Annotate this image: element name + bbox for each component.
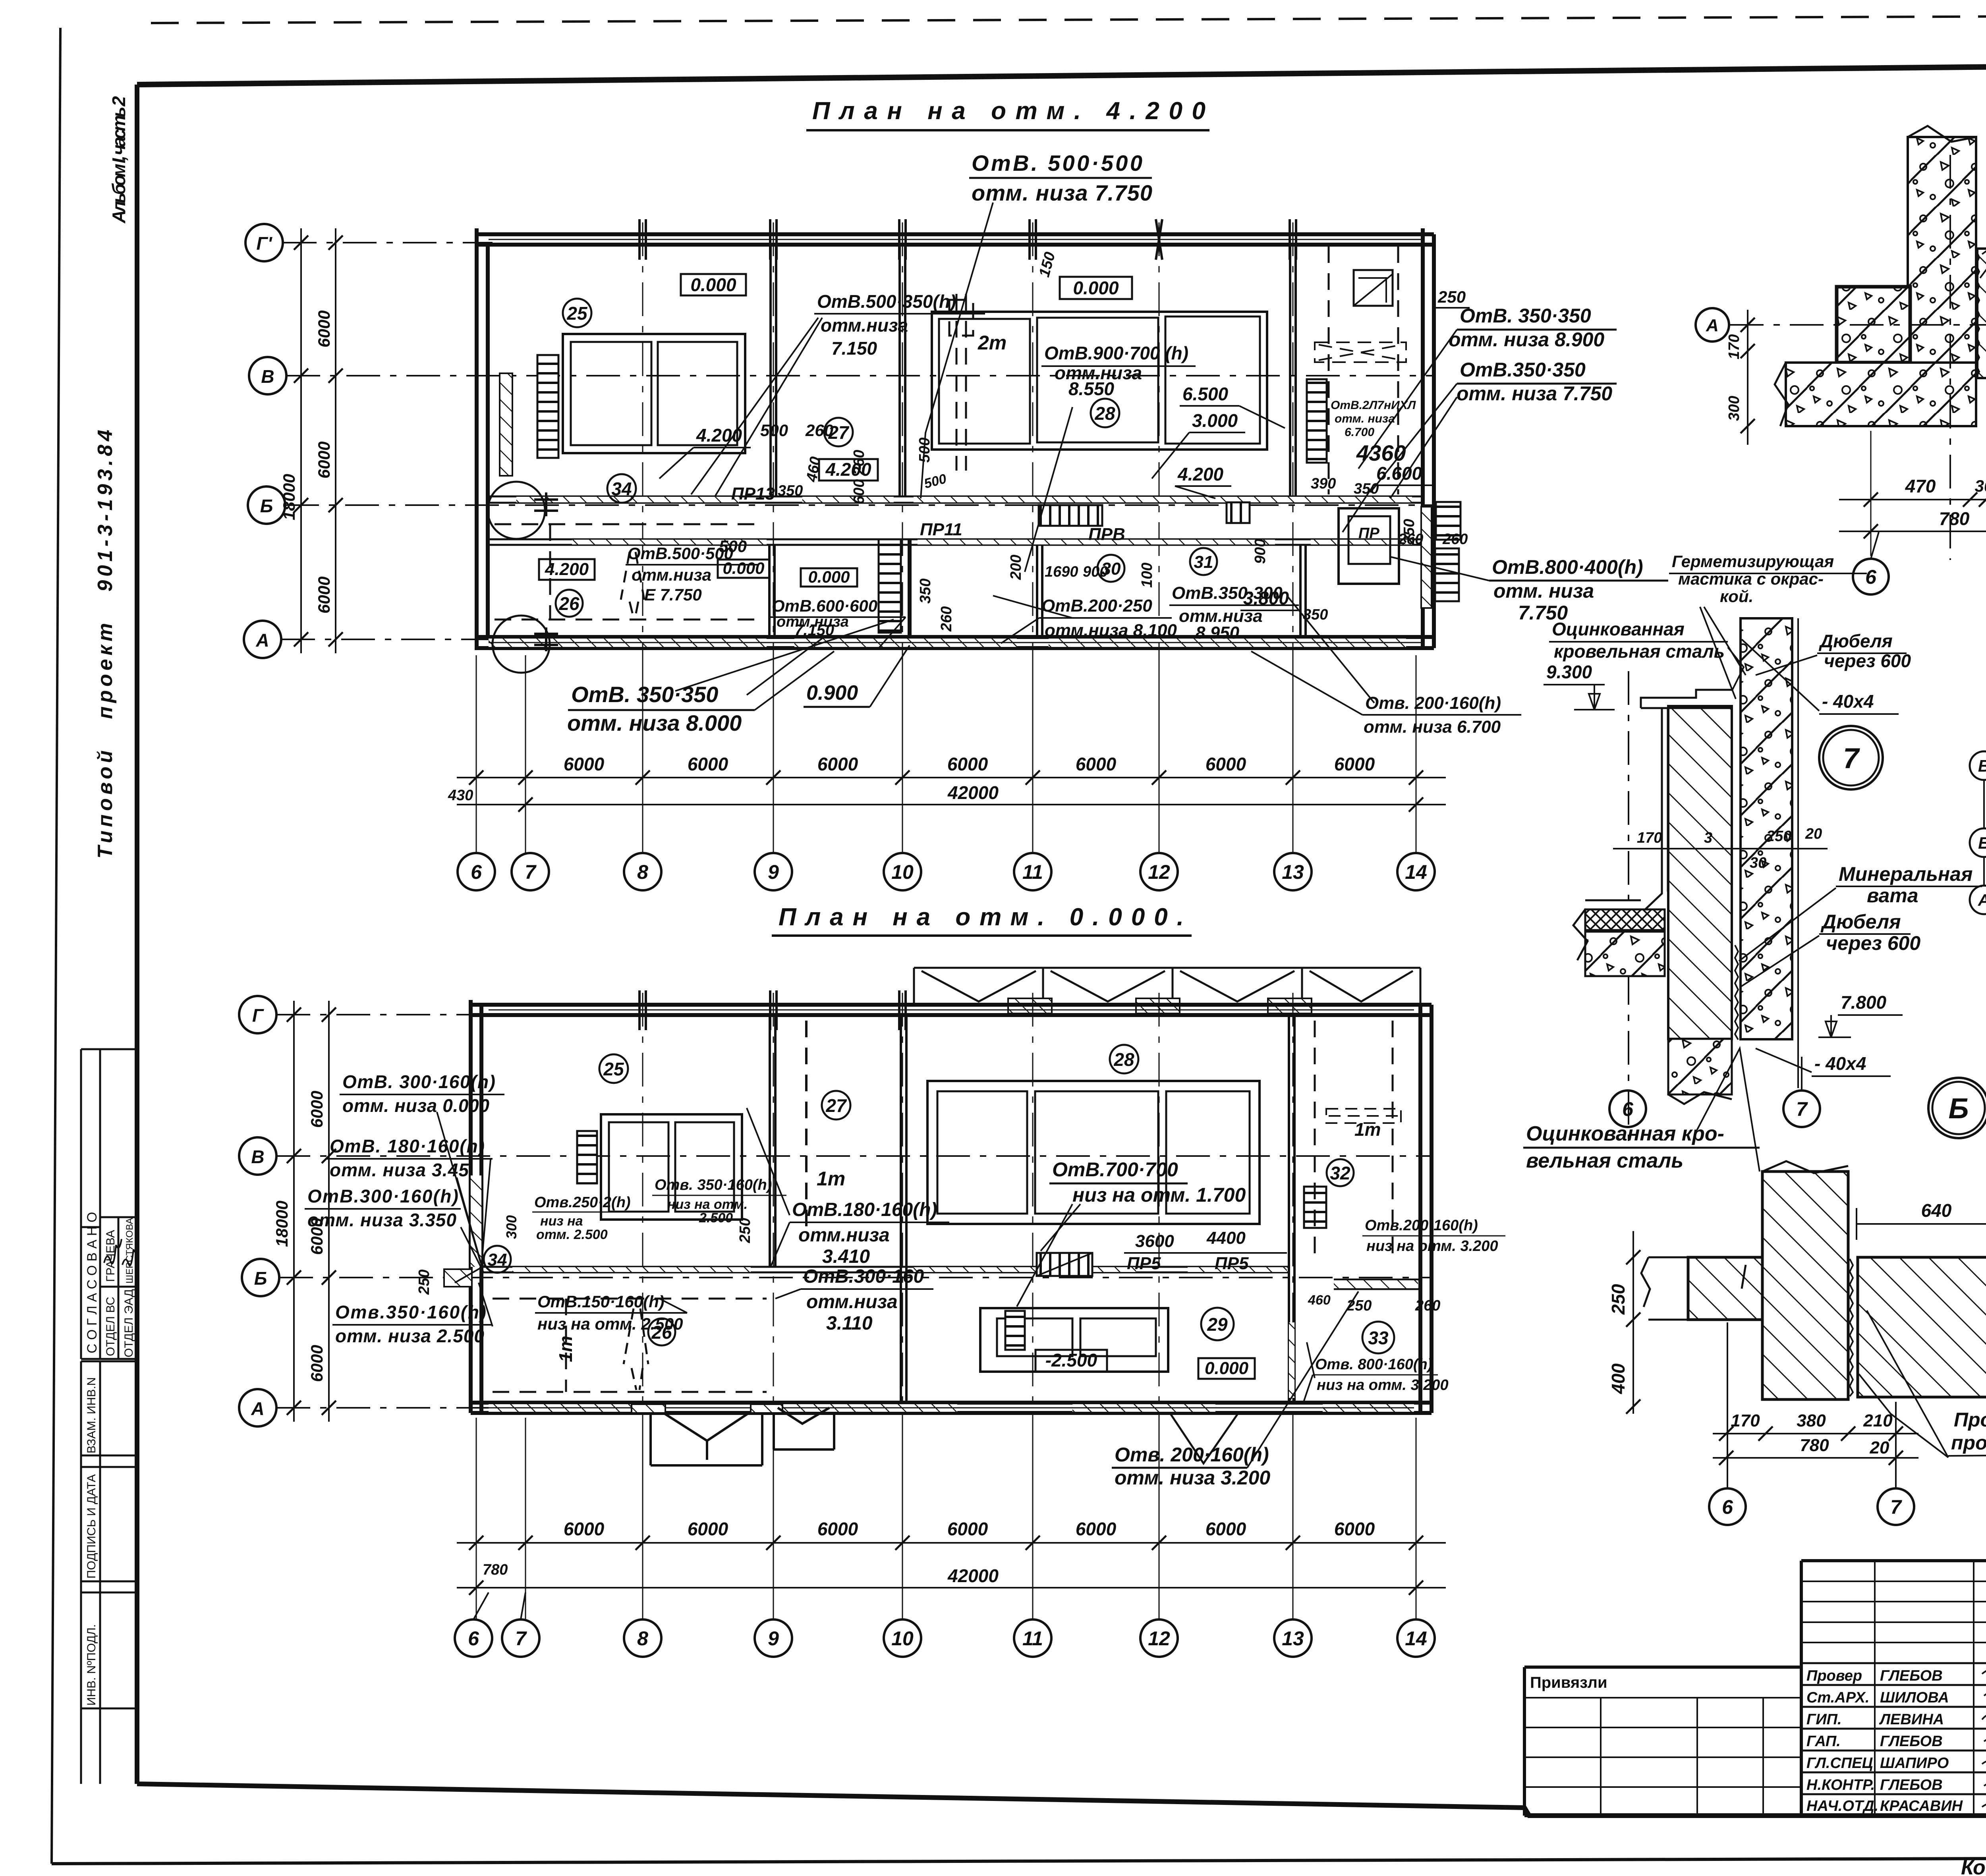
lower grid circle 7 bbox=[502, 1619, 539, 1657]
lower grid circle 12 bbox=[1140, 1619, 1178, 1657]
room 25 window tank bbox=[563, 334, 745, 453]
small stair left of band bbox=[1005, 1311, 1025, 1350]
upper dim line row2 bbox=[457, 804, 1446, 805]
axis circle A left bbox=[1696, 308, 1729, 342]
tank room 28 outer bbox=[932, 312, 1267, 450]
svg-text:ОтВ.300·160: ОтВ.300·160 bbox=[803, 1266, 924, 1287]
svg-text:4360: 4360 bbox=[1356, 440, 1406, 465]
svg-text:- 40х4: - 40х4 bbox=[1814, 1053, 1866, 1074]
upper plan right wall bbox=[1421, 228, 1425, 648]
svg-text:отм.низа: отм.низа bbox=[798, 1225, 890, 1246]
detail B grid circle 7 bbox=[1878, 1488, 1914, 1525]
right section dashed lines bbox=[1329, 246, 1398, 494]
interior wall col10 upper band bbox=[898, 245, 901, 497]
dashed hole room26 lower bbox=[624, 1309, 648, 1390]
svg-text:ОтВ. 180·160(h): ОтВ. 180·160(h) bbox=[330, 1136, 485, 1156]
svg-text:30: 30 bbox=[1750, 855, 1766, 871]
svg-text:33: 33 bbox=[1368, 1328, 1389, 1348]
svg-text:1m: 1m bbox=[1354, 1119, 1381, 1140]
svg-text:6000: 6000 bbox=[688, 754, 728, 774]
exterior stair right top bbox=[1436, 502, 1461, 540]
svg-text:26: 26 bbox=[558, 593, 580, 614]
column centerlines lower plan bbox=[643, 993, 1293, 1426]
upper grid circle 10 bbox=[884, 853, 921, 890]
svg-text:25: 25 bbox=[603, 1059, 624, 1079]
B-axis wall right section lower plan bbox=[1334, 1279, 1420, 1281]
detail 7 wall dims bbox=[1613, 848, 1828, 849]
interior wall col9 upper band bbox=[769, 245, 772, 497]
svg-text:1m: 1m bbox=[555, 1336, 576, 1362]
svg-text:Оцинкованная: Оцинкованная bbox=[1552, 619, 1685, 639]
svg-text:В: В bbox=[1978, 757, 1986, 775]
detail 7 panel lower part bbox=[1668, 1039, 1732, 1094]
svg-text:10: 10 bbox=[891, 861, 914, 883]
svg-text:6000: 6000 bbox=[315, 311, 333, 347]
svg-text:8.550: 8.550 bbox=[1068, 378, 1115, 399]
svg-text:900: 900 bbox=[1252, 539, 1269, 564]
detail 7 grid circle 7 below bbox=[1783, 1090, 1820, 1127]
stair mid corridor bbox=[1039, 505, 1102, 526]
svg-text:ПР5: ПР5 bbox=[1127, 1254, 1161, 1273]
svg-text:260: 260 bbox=[1415, 1297, 1440, 1314]
detail 7 outer face line bbox=[1797, 618, 1799, 1088]
lower grid circle 6 bbox=[455, 1619, 492, 1657]
detail B vertical bar bbox=[1762, 1172, 1848, 1399]
detail 4 left vert dim bbox=[1747, 310, 1748, 445]
axis G' dash-dot line bbox=[283, 242, 493, 243]
detail 4 left slab bbox=[1786, 363, 1976, 426]
svg-text:30: 30 bbox=[1975, 477, 1986, 495]
right ladder room 32 bbox=[1304, 1187, 1326, 1228]
svg-text:отм. низа 0.000: отм. низа 0.000 bbox=[342, 1095, 489, 1116]
svg-text:Г: Г bbox=[252, 1005, 264, 1026]
svg-text:ОТДЕЛ ВС: ОТДЕЛ ВС bbox=[104, 1297, 117, 1356]
upper grid circle 7 bbox=[512, 853, 549, 890]
svg-text:9: 9 bbox=[768, 861, 779, 883]
interior wall col10 lower plan bbox=[900, 1015, 902, 1403]
svg-text:Провер: Провер bbox=[1806, 1668, 1862, 1684]
svg-text:Отв. 200·160(h): Отв. 200·160(h) bbox=[1115, 1444, 1269, 1466]
svg-text:Привязли: Привязли bbox=[1530, 1674, 1607, 1691]
svg-text:6: 6 bbox=[471, 861, 482, 883]
axis diagram circle A bbox=[1970, 886, 1986, 914]
svg-text:20: 20 bbox=[1805, 826, 1822, 842]
svg-text:ОтВ. 500·500: ОтВ. 500·500 bbox=[972, 151, 1142, 176]
axis V dash-dot line bbox=[286, 375, 1434, 376]
detail B label circle bbox=[1928, 1078, 1986, 1138]
svg-text:28: 28 bbox=[1113, 1049, 1134, 1070]
svg-text:4.200: 4.200 bbox=[1177, 464, 1224, 484]
svg-text:ОтВ.700·700: ОтВ.700·700 bbox=[1052, 1158, 1178, 1181]
svg-text:отм.низа 8.100: отм.низа 8.100 bbox=[1045, 621, 1177, 640]
svg-text:ПОДПИСЬ И ДАТА: ПОДПИСЬ И ДАТА bbox=[85, 1474, 98, 1579]
svg-text:Б: Б bbox=[260, 496, 273, 516]
box 0.000 lower bbox=[1198, 1358, 1255, 1379]
lower grid circle 10 bbox=[884, 1619, 921, 1657]
svg-text:14: 14 bbox=[1405, 1627, 1427, 1650]
upper grid circle 13 bbox=[1274, 853, 1312, 890]
dashed opening 2m bbox=[949, 294, 973, 471]
svg-text:6000: 6000 bbox=[1334, 1519, 1375, 1539]
svg-text:6: 6 bbox=[1622, 1098, 1634, 1120]
detail circle at axis B left wall bbox=[488, 482, 545, 539]
left wall pier hatched bbox=[500, 373, 512, 476]
svg-text:6: 6 bbox=[1865, 566, 1877, 588]
svg-text:1m: 1m bbox=[817, 1168, 845, 1190]
svg-text:низ на отм. 3.200: низ на отм. 3.200 bbox=[1366, 1238, 1498, 1255]
axis A circle lower bbox=[239, 1389, 276, 1426]
svg-text:250: 250 bbox=[1766, 828, 1791, 845]
svg-text:4.200: 4.200 bbox=[545, 560, 589, 579]
svg-text:6000: 6000 bbox=[1076, 754, 1117, 774]
tank room 28 pane2 bbox=[1037, 318, 1158, 442]
main frame top bbox=[137, 61, 1986, 85]
svg-text:18000: 18000 bbox=[272, 1200, 291, 1247]
svg-text:-2.500: -2.500 bbox=[1045, 1350, 1097, 1370]
svg-text:Отв.200·160(h): Отв.200·160(h) bbox=[1365, 1217, 1478, 1234]
svg-text:6.700: 6.700 bbox=[1345, 426, 1374, 439]
svg-text:34: 34 bbox=[611, 479, 632, 499]
detail B grid circle 6 bbox=[1709, 1488, 1746, 1525]
svg-text:ОтВ.180·160(h): ОтВ.180·160(h) bbox=[792, 1199, 937, 1220]
34 circle lower bbox=[484, 1246, 511, 1273]
svg-text:4400: 4400 bbox=[1206, 1228, 1246, 1248]
level box 4.200 room26 bbox=[539, 559, 595, 580]
svg-text:Проконопатить: Проконопатить bbox=[1954, 1409, 1986, 1431]
detail B right bar bbox=[1858, 1257, 1986, 1397]
svg-text:7: 7 bbox=[1890, 1496, 1902, 1518]
svg-text:Б: Б bbox=[254, 1268, 267, 1289]
lower plan title underline bbox=[772, 934, 1192, 937]
svg-text:отм.низа: отм.низа bbox=[821, 315, 908, 336]
svg-text:26: 26 bbox=[651, 1322, 672, 1343]
svg-text:6.500: 6.500 bbox=[1182, 384, 1229, 404]
svg-text:ОтВ.600·600: ОтВ.600·600 bbox=[772, 596, 877, 615]
detail 4 axis A dashdot bbox=[1730, 324, 1986, 326]
staff labels bbox=[1806, 1668, 1963, 1814]
svg-text:27: 27 bbox=[825, 1095, 847, 1116]
svg-text:34: 34 bbox=[488, 1250, 507, 1270]
svg-text:ОтВ.2Л7нИХЛ: ОтВ.2Л7нИХЛ bbox=[1331, 399, 1416, 412]
interior walls lower band bbox=[768, 545, 771, 637]
roof hatch pads on wall bbox=[1008, 998, 1052, 1013]
box -2.500 bbox=[1036, 1350, 1107, 1372]
tank room 28 pane1 bbox=[939, 319, 1030, 444]
room circle 28 lower bbox=[1110, 1045, 1138, 1073]
leaders from otv180/300 bbox=[747, 1108, 801, 1299]
axis diagram connectors bbox=[1983, 780, 1985, 828]
dashed beam right section bbox=[1315, 342, 1406, 362]
svg-text:11: 11 bbox=[1022, 861, 1043, 883]
detail 7 label circle bbox=[1819, 726, 1883, 789]
left dim line 6000s bbox=[335, 228, 336, 653]
room circle 28 bbox=[1091, 399, 1119, 427]
column tick marks axis B left bbox=[534, 492, 558, 516]
interior wall col13 upper band bbox=[1289, 245, 1291, 497]
svg-text:350: 350 bbox=[778, 483, 803, 499]
svg-text:7.800: 7.800 bbox=[1841, 992, 1887, 1013]
svg-text:Отв. 200·160(h): Отв. 200·160(h) bbox=[1365, 693, 1501, 713]
svg-text:0.000: 0.000 bbox=[690, 274, 736, 295]
svg-text:ОтВ.150·160(h): ОтВ.150·160(h) bbox=[537, 1292, 665, 1311]
svg-text:ГЛ.СПЕЦ: ГЛ.СПЕЦ bbox=[1806, 1755, 1873, 1772]
privyazki table bbox=[1524, 1698, 1801, 1816]
svg-text:3.800: 3.800 bbox=[1243, 588, 1289, 608]
upper dim line row1 bbox=[457, 777, 1446, 778]
axis diagram circle V bbox=[1970, 751, 1986, 780]
svg-text:ОтВ.800·400(h): ОтВ.800·400(h) bbox=[1492, 556, 1643, 578]
svg-text:ГЛЕБОВ: ГЛЕБОВ bbox=[1880, 1777, 1943, 1793]
small rooms bottom right bbox=[1339, 508, 1399, 584]
detail B 640 dim bbox=[1857, 1223, 1986, 1225]
detail 4 left concrete square bbox=[1837, 287, 1910, 363]
svg-text:6000: 6000 bbox=[315, 577, 333, 614]
svg-text:С О Г Л А С О В А Н О: С О Г Л А С О В А Н О bbox=[85, 1212, 100, 1353]
svg-text:6000: 6000 bbox=[307, 1345, 326, 1382]
detail 4 seam bbox=[1976, 250, 1979, 377]
svg-text:18000: 18000 bbox=[280, 474, 298, 520]
svg-text:32: 32 bbox=[1330, 1163, 1350, 1183]
svg-text:6: 6 bbox=[468, 1627, 479, 1650]
svg-text:ЛЕВИНА: ЛЕВИНА bbox=[1879, 1711, 1944, 1728]
svg-text:Отв. 350·160(h): Отв. 350·160(h) bbox=[655, 1177, 772, 1193]
svg-text:НАЧ.ОТД.: НАЧ.ОТД. bbox=[1806, 1798, 1878, 1814]
sawtooth roof line bbox=[914, 967, 1420, 969]
room 27 dashed line bbox=[805, 1021, 808, 1235]
svg-text:3.110: 3.110 bbox=[826, 1313, 873, 1334]
extension lines lower dims bbox=[476, 1418, 1416, 1619]
svg-text:500: 500 bbox=[760, 421, 788, 440]
detail B axis verticals bbox=[1727, 1322, 1728, 1488]
detail 7 grid circle 6 below bbox=[1609, 1090, 1646, 1127]
svg-text:отм. низа 7.750: отм. низа 7.750 bbox=[1457, 382, 1612, 405]
svg-text:ОтВ.300·160(h): ОтВ.300·160(h) bbox=[307, 1186, 458, 1206]
stairs top of machine band bbox=[1037, 1253, 1092, 1276]
svg-text:3: 3 bbox=[1704, 830, 1712, 846]
detail 7 insulation strip bbox=[1585, 909, 1665, 930]
svg-text:7.150: 7.150 bbox=[831, 338, 877, 359]
svg-text:Е 7.750: Е 7.750 bbox=[644, 585, 702, 604]
column marks top wall lower bbox=[639, 990, 906, 1030]
svg-text:8: 8 bbox=[637, 861, 648, 883]
svg-text:Отв. 800·160(h): Отв. 800·160(h) bbox=[1315, 1356, 1432, 1373]
svg-text:6000: 6000 bbox=[688, 1519, 728, 1539]
room circle 25 bbox=[563, 299, 591, 327]
level box 0.000 room25 bbox=[681, 274, 746, 295]
svg-text:6: 6 bbox=[1722, 1496, 1733, 1518]
svg-text:900: 900 bbox=[1083, 564, 1108, 580]
left wall stub at B bbox=[444, 1269, 472, 1287]
leaders right annotations bbox=[1358, 330, 1457, 498]
svg-text:отм. низа: отм. низа bbox=[1493, 580, 1594, 602]
svg-text:6.600: 6.600 bbox=[1376, 463, 1422, 484]
svg-text:отм. низа 3.200: отм. низа 3.200 bbox=[1115, 1467, 1270, 1489]
svg-text:7: 7 bbox=[1796, 1098, 1808, 1120]
svg-text:500: 500 bbox=[916, 438, 933, 463]
leaders from 600x600 bbox=[675, 617, 906, 691]
26 circle lower bbox=[648, 1318, 675, 1345]
corridor upper wall bbox=[488, 496, 1423, 498]
upper grid circle 11 bbox=[1014, 853, 1051, 890]
svg-text:260: 260 bbox=[938, 606, 955, 632]
detail 4 axis line col6 bbox=[1949, 155, 1951, 560]
svg-text:ПР11: ПР11 bbox=[920, 520, 962, 539]
axis A circle bbox=[244, 621, 281, 658]
svg-text:ОтВ.200·250: ОтВ.200·250 bbox=[1041, 596, 1152, 616]
svg-text:350: 350 bbox=[1354, 481, 1379, 497]
room circle 26 bbox=[556, 590, 583, 617]
svg-text:отм. низа 8.000: отм. низа 8.000 bbox=[567, 710, 742, 735]
svg-text:Дюбеля: Дюбеля bbox=[1820, 911, 1901, 933]
signatures scribbles bbox=[1982, 1669, 1986, 1809]
svg-text:4.200: 4.200 bbox=[696, 425, 742, 446]
svg-text:0.000: 0.000 bbox=[808, 567, 850, 586]
lower plan left wall bbox=[469, 1000, 473, 1413]
hole dashed marks room26 bbox=[621, 552, 644, 618]
svg-text:низ на отм. 3.200: низ на отм. 3.200 bbox=[1317, 1377, 1449, 1393]
svg-text:250: 250 bbox=[1437, 288, 1466, 306]
svg-text:Отв.250·2(h): Отв.250·2(h) bbox=[534, 1194, 631, 1211]
detail 4 extension lines bbox=[1870, 431, 1872, 556]
svg-text:7: 7 bbox=[1843, 743, 1860, 774]
svg-text:отм. низа 3.45: отм. низа 3.45 bbox=[330, 1160, 469, 1180]
svg-text:А: А bbox=[1978, 891, 1986, 909]
lower dim line row2 bbox=[457, 1587, 1446, 1588]
svg-text:2m: 2m bbox=[978, 332, 1007, 354]
svg-text:Б: Б bbox=[1949, 1093, 1969, 1125]
svg-text:300: 300 bbox=[1726, 396, 1743, 421]
svg-text:ВЗАМ. ИНВ.N: ВЗАМ. ИНВ.N bbox=[85, 1377, 98, 1453]
right section dashed lines lower bbox=[1315, 1021, 1393, 1263]
svg-text:ИНВ. NºПОДЛ.: ИНВ. NºПОДЛ. bbox=[85, 1624, 98, 1706]
svg-text:Герметизирующая: Герметизирующая bbox=[1672, 552, 1834, 571]
detail 7 cap flashing bbox=[1641, 690, 1732, 708]
column tick marks axis A left bbox=[534, 627, 558, 651]
axis A dash-dot line bbox=[281, 639, 493, 640]
svg-text:29: 29 bbox=[1207, 1314, 1228, 1335]
room 25 window lower bbox=[601, 1114, 742, 1220]
svg-text:260: 260 bbox=[1398, 531, 1423, 548]
upper plan top wall bbox=[475, 232, 1434, 236]
svg-text:7: 7 bbox=[525, 861, 537, 883]
axis G' circle bbox=[245, 224, 283, 261]
33 circle bbox=[1362, 1322, 1394, 1353]
svg-text:11: 11 bbox=[1022, 1627, 1043, 1650]
svg-text:380: 380 bbox=[1797, 1411, 1826, 1430]
main frame left bbox=[135, 85, 139, 1784]
svg-text:250: 250 bbox=[1608, 1284, 1629, 1315]
stairs room25 lower bbox=[577, 1131, 597, 1183]
svg-text:400: 400 bbox=[1608, 1363, 1629, 1394]
svg-text:низ на: низ на bbox=[540, 1214, 583, 1229]
svg-text:42000: 42000 bbox=[947, 1565, 999, 1586]
lower dim line row1 bbox=[457, 1542, 1446, 1544]
svg-text:низ на отм. 1.700: низ на отм. 1.700 bbox=[1072, 1184, 1246, 1206]
svg-text:вельная сталь: вельная сталь bbox=[1526, 1149, 1683, 1172]
svg-text:А: А bbox=[255, 630, 269, 650]
column marks on top wall bbox=[639, 219, 1296, 260]
corridor wall lower plan bbox=[481, 1266, 1289, 1268]
svg-text:6000: 6000 bbox=[315, 442, 333, 479]
svg-text:170: 170 bbox=[1731, 1411, 1760, 1430]
svg-text:ОтВ.900·700 (h): ОтВ.900·700 (h) bbox=[1044, 343, 1188, 363]
upper plan left wall bbox=[475, 228, 479, 648]
lower grid circle 13 bbox=[1274, 1619, 1312, 1657]
svg-text:ОтВ. 300·160(h): ОтВ. 300·160(h) bbox=[342, 1071, 495, 1092]
lower grid circle 8 bbox=[624, 1619, 661, 1657]
corridor lower wall bbox=[488, 538, 1423, 540]
svg-text:7: 7 bbox=[515, 1627, 527, 1650]
svg-text:отм.низа: отм.низа bbox=[632, 566, 711, 584]
left wall hatched pier lower bbox=[471, 1175, 481, 1267]
room 26 dashed area bbox=[495, 524, 755, 620]
svg-text:10: 10 bbox=[891, 1627, 914, 1650]
svg-text:390: 390 bbox=[1311, 475, 1336, 492]
svg-text:3.000: 3.000 bbox=[1192, 410, 1238, 431]
svg-text:через 600: через 600 bbox=[1826, 932, 1920, 954]
svg-text:170: 170 bbox=[1637, 830, 1662, 846]
svg-text:14: 14 bbox=[1405, 861, 1427, 883]
extension lines to bottom dims bbox=[476, 655, 1416, 853]
revision table rows bbox=[1801, 1561, 1986, 1816]
column centerlines vertical dash-dot bbox=[643, 222, 1293, 659]
detail B dowel seam bbox=[1850, 1259, 1853, 1396]
svg-text:Минеральная: Минеральная bbox=[1839, 863, 1972, 885]
svg-text:6000: 6000 bbox=[564, 1519, 605, 1539]
svg-text:КРАСАВИН: КРАСАВИН bbox=[1880, 1798, 1963, 1814]
svg-text:200: 200 bbox=[1008, 555, 1024, 580]
hatched pier right edge bbox=[1421, 507, 1432, 608]
svg-text:ШИЛОВА: ШИЛОВА bbox=[1880, 1689, 1949, 1706]
axis dash-dot lines lower bbox=[276, 1014, 489, 1015]
lower grid circle 9 bbox=[755, 1619, 792, 1657]
svg-text:260: 260 bbox=[805, 421, 833, 440]
detail 7 outer concrete layer bbox=[1741, 618, 1792, 1039]
svg-text:13: 13 bbox=[1282, 1627, 1304, 1650]
svg-text:20: 20 bbox=[1870, 1438, 1889, 1457]
svg-text:6000: 6000 bbox=[817, 754, 858, 774]
lower grid circle 14 bbox=[1397, 1619, 1435, 1657]
svg-text:8.950: 8.950 bbox=[1196, 623, 1240, 643]
svg-text:6000: 6000 bbox=[1206, 754, 1246, 774]
axis G circle lower bbox=[239, 996, 276, 1033]
svg-text:- 40х4: - 40х4 bbox=[1822, 691, 1874, 712]
door canopy V room29 bbox=[1171, 1415, 1237, 1463]
upper grid circle 8 bbox=[624, 853, 661, 890]
approvals table box bbox=[81, 1049, 137, 1359]
svg-text:260: 260 bbox=[1442, 531, 1468, 548]
detail 7 parapet inner face bbox=[1637, 708, 1668, 917]
svg-text:780: 780 bbox=[1939, 508, 1970, 529]
svg-text:ПР5: ПР5 bbox=[1215, 1254, 1249, 1273]
svg-text:0.000: 0.000 bbox=[1205, 1359, 1249, 1378]
room circle 30 bbox=[1097, 555, 1124, 582]
svg-text:отм.низа: отм.низа bbox=[806, 1291, 898, 1312]
svg-text:В: В bbox=[251, 1146, 264, 1167]
axis V circle lower bbox=[239, 1137, 276, 1175]
exterior stair right bottom bbox=[1435, 548, 1459, 601]
detail circle at axis A left wall bbox=[493, 616, 550, 673]
svg-text:отм. низа: отм. низа bbox=[1335, 412, 1395, 425]
stair right inner bbox=[1307, 379, 1327, 463]
room 25 stair ladder bbox=[537, 355, 558, 458]
svg-text:250: 250 bbox=[416, 1270, 433, 1295]
svg-text:42000: 42000 bbox=[947, 782, 999, 803]
room 28 tank lower bbox=[927, 1081, 1260, 1224]
svg-text:ГИП.: ГИП. bbox=[1806, 1711, 1842, 1728]
svg-text:210: 210 bbox=[1863, 1411, 1893, 1430]
svg-text:кровельная сталь: кровельная сталь bbox=[1554, 641, 1725, 662]
